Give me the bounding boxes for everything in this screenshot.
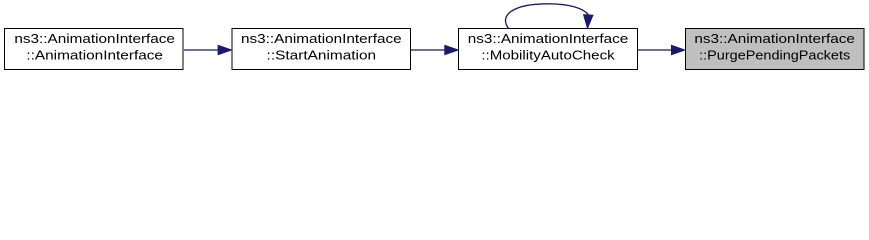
svg-text:::StartAnimation: ::StartAnimation	[267, 48, 377, 63]
svg-text:::AnimationInterface: ::AnimationInterface	[26, 48, 163, 63]
svg-text:::MobilityAutoCheck: ::MobilityAutoCheck	[481, 48, 615, 63]
svg-text:ns3::AnimationInterface: ns3::AnimationInterface	[468, 31, 629, 46]
svg-text:ns3::AnimationInterface: ns3::AnimationInterface	[694, 31, 855, 46]
svg-text:ns3::AnimationInterface: ns3::AnimationInterface	[14, 31, 175, 46]
svg-text:ns3::AnimationInterface: ns3::AnimationInterface	[241, 31, 402, 46]
svg-text:::PurgePendingPackets: ::PurgePendingPackets	[699, 48, 850, 63]
